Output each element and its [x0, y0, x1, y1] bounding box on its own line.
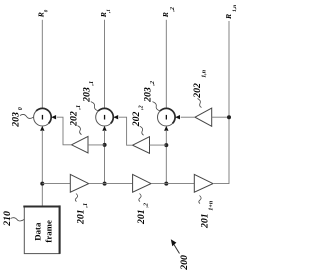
svg-text:201: 201 — [136, 209, 147, 225]
wire 202-1 input from column2 tap — [88, 144, 105, 146]
svg-text:Data: Data — [33, 222, 43, 241]
wire bus 201-1 output to amplifier 201-2 — [89, 183, 133, 185]
amplifier 202-2 — [133, 137, 150, 154]
node R2 label — [161, 7, 176, 18]
svg-text:203: 203 — [10, 112, 21, 128]
svg-text:202: 202 — [68, 111, 79, 127]
label 201-1+n — [199, 196, 215, 230]
svg-text:202: 202 — [131, 112, 142, 128]
amplifier 201-2 — [133, 174, 151, 192]
svg-text:frame: frame — [43, 220, 53, 243]
wire 202-2 input from column3 tap — [150, 144, 167, 146]
wire column1 bottom (circle to bus junction to data frame box) — [40, 126, 44, 206]
svg-text:203: 203 — [81, 87, 92, 103]
label 202-1 — [68, 105, 82, 135]
label 201-2 — [136, 194, 149, 226]
summer 203-1 — [96, 108, 114, 126]
wire bus 201-2 output to amplifier 201-1+n — [151, 183, 194, 185]
svg-text:1+n: 1+n — [208, 200, 214, 210]
node R1,n label — [224, 5, 238, 20]
svg-text:,1: ,1 — [76, 105, 82, 111]
wire 202-2 output to summer 203-1 — [113, 115, 132, 145]
svg-text:,2: ,2 — [143, 203, 149, 209]
svg-text:,2: ,2 — [170, 7, 176, 12]
label 202-1,n — [192, 69, 208, 107]
svg-text:,2: ,2 — [150, 81, 156, 87]
svg-text:,1: ,1 — [83, 203, 89, 209]
svg-text:1,n: 1,n — [232, 5, 238, 12]
node R0 label — [37, 9, 50, 18]
wire 202-1,n input from column4 — [212, 116, 229, 118]
wire bus from col1 junction to amplifier 201-1 — [42, 183, 70, 185]
svg-text:202: 202 — [192, 83, 203, 99]
label 203-1 — [81, 81, 98, 111]
label 203-0 — [10, 107, 33, 128]
wire column4 (R1,n down to bus corner) — [214, 21, 229, 184]
svg-text:1,n: 1,n — [201, 69, 207, 78]
wire column3 middle (circle bottom through taps to bus) — [164, 126, 168, 184]
junction dot column4 tap — [227, 115, 231, 119]
label 200 with arrow — [171, 239, 190, 270]
amplifier 202-1 — [72, 136, 89, 153]
wire column2 middle (circle bottom through taps to bus) — [102, 126, 106, 184]
wire 202-1,n output to summer 203-2 — [175, 115, 195, 119]
wire 202-1 output to summer 203-0 — [51, 115, 71, 145]
label 203-2 — [143, 81, 160, 111]
wire column1 top (circle 203-0 to R0) — [41, 20, 43, 109]
junction dot bus col1 — [40, 182, 44, 186]
junction dot 202-1 input tap — [103, 143, 107, 147]
svg-text:201: 201 — [200, 213, 211, 229]
svg-text:R: R — [224, 14, 233, 20]
label 202-2 — [131, 105, 144, 135]
amplifier 201-1+n — [194, 174, 213, 192]
label 201-1 — [75, 194, 89, 226]
node R1 label — [99, 9, 112, 18]
wire column2 top (circle 203-1 to R1) — [104, 20, 106, 109]
wire column3 top (circle 203-2 to R2) — [165, 20, 167, 109]
svg-text:203: 203 — [143, 87, 154, 103]
amplifier 202-1,n — [195, 108, 212, 126]
summer 203-0 — [34, 108, 52, 126]
svg-text:201: 201 — [76, 209, 87, 225]
junction dot bus col2 — [103, 182, 107, 186]
amplifier 201-1 — [70, 174, 88, 192]
svg-text:R: R — [161, 12, 170, 18]
label 210 — [2, 211, 24, 227]
svg-text:,1: ,1 — [89, 81, 95, 87]
svg-text:210: 210 — [2, 211, 13, 227]
svg-text:0: 0 — [18, 107, 24, 110]
summer 203-2 — [158, 108, 176, 126]
svg-text:,2: ,2 — [138, 105, 144, 111]
junction dot 202-2 input tap — [164, 143, 168, 147]
svg-text:,1: ,1 — [107, 9, 112, 14]
svg-text:200: 200 — [179, 255, 190, 271]
data frame box 210 — [23, 205, 60, 253]
junction dot bus col3 — [164, 182, 168, 186]
